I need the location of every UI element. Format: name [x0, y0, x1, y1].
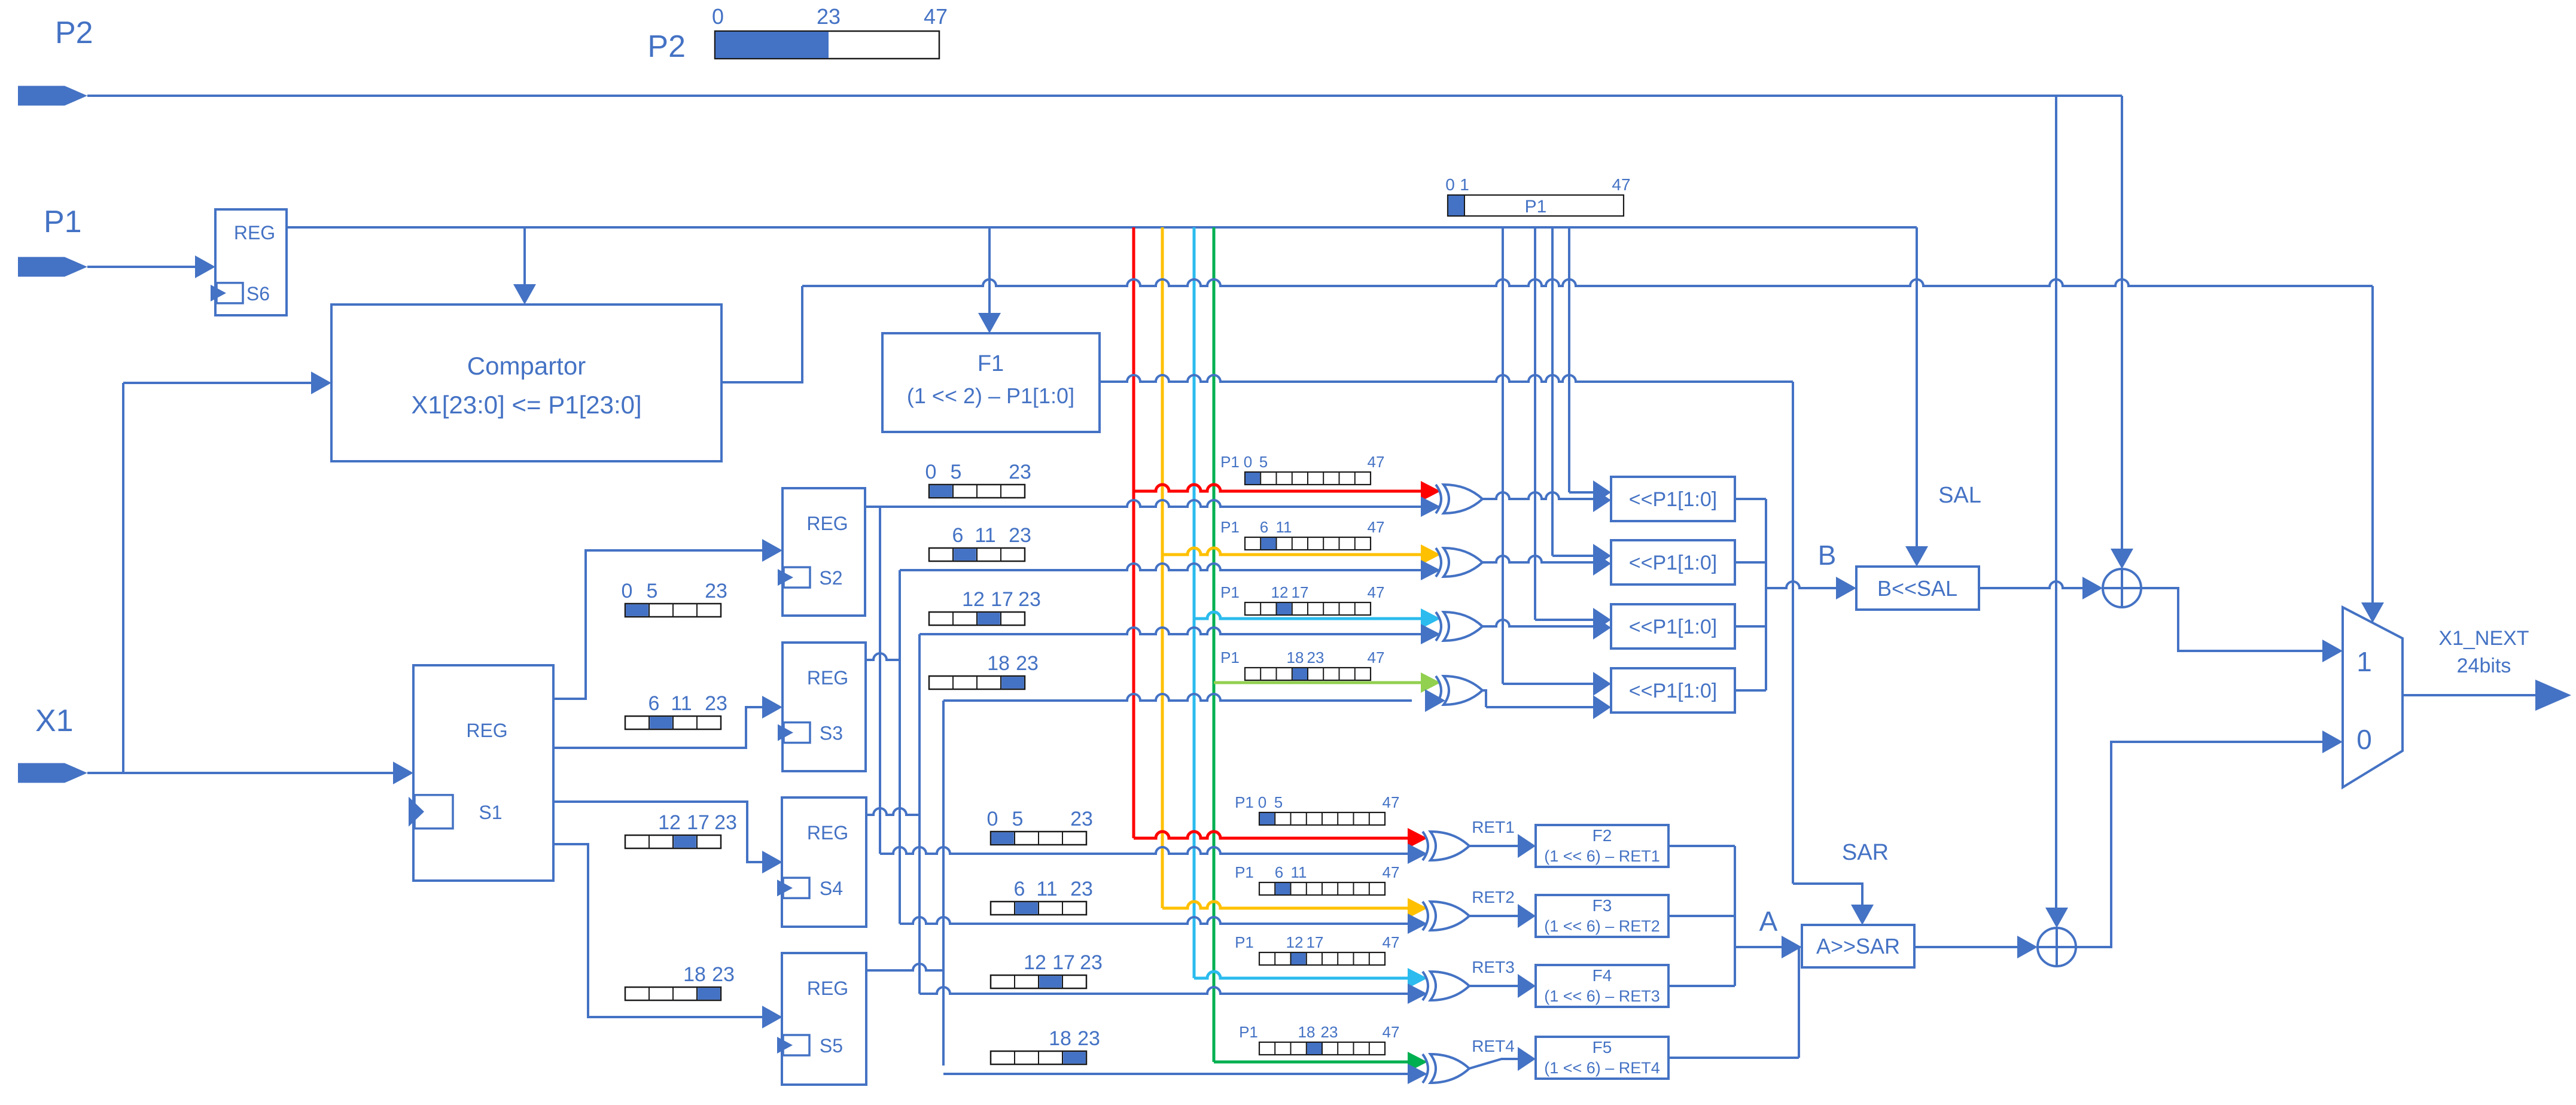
svg-text:23: 23 — [1009, 524, 1031, 547]
svg-text:11: 11 — [975, 524, 995, 547]
svg-text:F5: F5 — [1593, 1038, 1612, 1057]
svg-text:5: 5 — [1274, 793, 1283, 811]
svg-text:P1: P1 — [1239, 1023, 1258, 1041]
svg-text:6: 6 — [1014, 878, 1025, 900]
svg-text:5: 5 — [647, 580, 658, 602]
svg-text:47: 47 — [1368, 453, 1385, 471]
svg-text:18: 18 — [683, 963, 706, 986]
svg-text:REG: REG — [807, 978, 848, 999]
svg-text:0: 0 — [622, 580, 633, 602]
svg-text:B: B — [1818, 540, 1837, 571]
svg-text:F2: F2 — [1593, 826, 1612, 845]
svg-text:12: 12 — [1286, 933, 1304, 951]
svg-text:S6: S6 — [246, 283, 270, 305]
svg-text:(1 << 6) – RET3: (1 << 6) – RET3 — [1544, 987, 1660, 1005]
svg-text:12: 12 — [1024, 951, 1046, 974]
svg-text:<<P1[1:0]: <<P1[1:0] — [1629, 552, 1717, 574]
svg-text:12: 12 — [1271, 583, 1289, 601]
svg-text:5: 5 — [1012, 808, 1024, 830]
svg-text:18: 18 — [1298, 1023, 1316, 1041]
svg-text:0: 0 — [1244, 453, 1252, 471]
svg-text:0: 0 — [925, 461, 937, 483]
svg-text:47: 47 — [1383, 933, 1400, 951]
svg-text:REG: REG — [807, 667, 848, 689]
svg-text:47: 47 — [1368, 518, 1385, 536]
svg-text:0: 0 — [1258, 793, 1266, 811]
svg-text:A: A — [1759, 906, 1778, 937]
svg-text:REG: REG — [806, 513, 848, 534]
svg-text:X1_NEXT: X1_NEXT — [2438, 627, 2529, 650]
svg-text:23: 23 — [705, 692, 727, 715]
svg-text:23: 23 — [1070, 808, 1093, 830]
svg-text:RET1: RET1 — [1472, 818, 1515, 836]
svg-text:47: 47 — [1383, 793, 1400, 811]
svg-text:17: 17 — [991, 588, 1013, 611]
svg-text:23: 23 — [1009, 461, 1031, 483]
svg-text:17: 17 — [1052, 951, 1075, 974]
svg-text:11: 11 — [1291, 863, 1307, 881]
svg-text:SAL: SAL — [1938, 483, 1981, 508]
svg-text:(1 << 6) – RET1: (1 << 6) – RET1 — [1544, 847, 1660, 865]
svg-text:X1: X1 — [35, 704, 74, 738]
svg-text:0: 0 — [2356, 724, 2372, 755]
svg-text:47: 47 — [1368, 649, 1385, 666]
svg-text:24bits: 24bits — [2457, 655, 2511, 677]
svg-text:23: 23 — [714, 811, 737, 834]
svg-text:F1: F1 — [978, 351, 1004, 376]
svg-text:S3: S3 — [820, 723, 843, 744]
svg-text:P1: P1 — [44, 205, 82, 239]
svg-text:47: 47 — [1383, 1023, 1400, 1041]
svg-text:11: 11 — [671, 692, 692, 715]
svg-text:5: 5 — [1259, 453, 1268, 471]
svg-text:P1: P1 — [1235, 933, 1254, 951]
svg-text:23: 23 — [817, 4, 841, 29]
svg-text:0: 0 — [1445, 175, 1455, 194]
svg-text:P1: P1 — [1525, 197, 1547, 217]
svg-text:23: 23 — [1070, 878, 1093, 900]
svg-text:23: 23 — [1018, 588, 1041, 611]
svg-text:<<P1[1:0]: <<P1[1:0] — [1629, 488, 1717, 511]
svg-text:S4: S4 — [820, 878, 843, 899]
svg-text:17: 17 — [1307, 933, 1324, 951]
svg-text:F3: F3 — [1593, 896, 1612, 915]
svg-text:P1: P1 — [1235, 863, 1254, 881]
svg-text:18: 18 — [987, 652, 1010, 675]
svg-text:1: 1 — [2356, 646, 2372, 677]
svg-text:P1: P1 — [1220, 453, 1240, 471]
svg-text:RET4: RET4 — [1472, 1037, 1515, 1055]
svg-text:REG: REG — [466, 720, 507, 741]
svg-text:P1: P1 — [1220, 518, 1240, 536]
svg-text:<<P1[1:0]: <<P1[1:0] — [1629, 616, 1717, 638]
svg-text:<<P1[1:0]: <<P1[1:0] — [1629, 680, 1717, 702]
svg-text:A>>SAR: A>>SAR — [1816, 934, 1900, 958]
svg-text:12: 12 — [962, 588, 985, 611]
svg-text:23: 23 — [712, 963, 735, 986]
svg-text:P1: P1 — [1220, 649, 1240, 666]
svg-text:23: 23 — [705, 580, 727, 602]
svg-text:23: 23 — [1016, 652, 1039, 675]
svg-text:23: 23 — [1321, 1023, 1338, 1041]
svg-text:47: 47 — [924, 4, 948, 29]
svg-text:0: 0 — [712, 4, 724, 29]
svg-text:23: 23 — [1080, 951, 1103, 974]
svg-text:47: 47 — [1612, 175, 1630, 194]
svg-text:B<<SAL: B<<SAL — [1877, 576, 1957, 601]
svg-text:6: 6 — [1275, 863, 1283, 881]
svg-text:P1: P1 — [1220, 583, 1240, 601]
svg-text:REG: REG — [234, 222, 275, 243]
svg-text:18: 18 — [1287, 649, 1304, 666]
svg-text:0: 0 — [987, 808, 998, 830]
svg-text:5: 5 — [951, 461, 962, 483]
svg-text:S2: S2 — [819, 567, 842, 589]
svg-text:6: 6 — [1260, 518, 1268, 536]
svg-text:(1 << 6) – RET4: (1 << 6) – RET4 — [1544, 1059, 1660, 1077]
svg-text:23: 23 — [1307, 649, 1324, 666]
svg-text:P2: P2 — [647, 29, 686, 64]
svg-text:17: 17 — [1292, 583, 1309, 601]
svg-text:23: 23 — [1077, 1027, 1100, 1050]
svg-text:Compartor: Compartor — [467, 352, 586, 380]
svg-text:F4: F4 — [1593, 966, 1612, 985]
svg-text:X1[23:0] <= P1[23:0]: X1[23:0] <= P1[23:0] — [411, 391, 641, 419]
svg-text:RET2: RET2 — [1472, 888, 1515, 906]
svg-text:P2: P2 — [55, 16, 93, 50]
svg-text:47: 47 — [1368, 583, 1385, 601]
svg-text:REG: REG — [807, 822, 848, 844]
svg-text:11: 11 — [1036, 878, 1057, 900]
svg-text:S5: S5 — [820, 1035, 843, 1057]
svg-text:1: 1 — [1460, 175, 1469, 194]
svg-text:(1 << 6) – RET2: (1 << 6) – RET2 — [1544, 917, 1660, 935]
svg-text:(1 << 2) – P1[1:0]: (1 << 2) – P1[1:0] — [907, 383, 1074, 408]
svg-text:18: 18 — [1049, 1027, 1071, 1050]
svg-text:S1: S1 — [479, 802, 502, 823]
svg-text:11: 11 — [1276, 518, 1292, 536]
svg-text:6: 6 — [952, 524, 964, 547]
svg-text:17: 17 — [687, 811, 710, 834]
svg-text:P1: P1 — [1235, 793, 1254, 811]
svg-text:12: 12 — [658, 811, 681, 834]
svg-text:47: 47 — [1383, 863, 1400, 881]
svg-text:RET3: RET3 — [1472, 958, 1515, 976]
svg-text:6: 6 — [648, 692, 660, 715]
svg-text:SAR: SAR — [1842, 840, 1889, 865]
